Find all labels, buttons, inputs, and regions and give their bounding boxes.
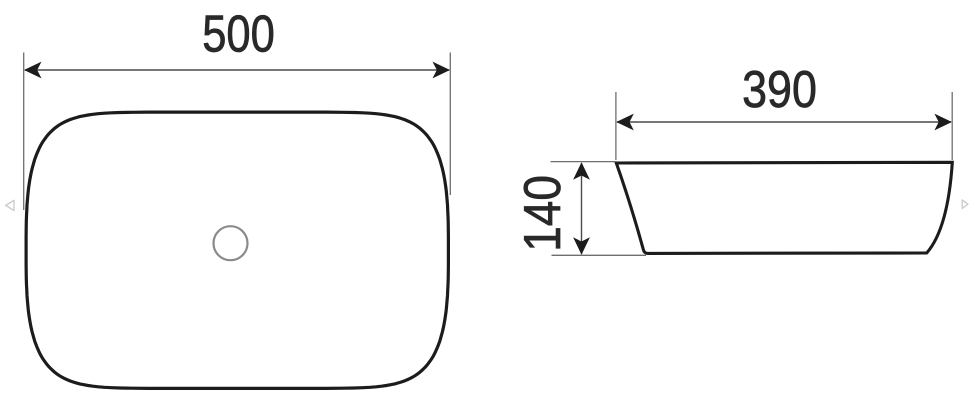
svg-text:140: 140 <box>514 175 572 252</box>
svg-text:390: 390 <box>742 61 817 119</box>
svg-text:500: 500 <box>202 6 275 64</box>
